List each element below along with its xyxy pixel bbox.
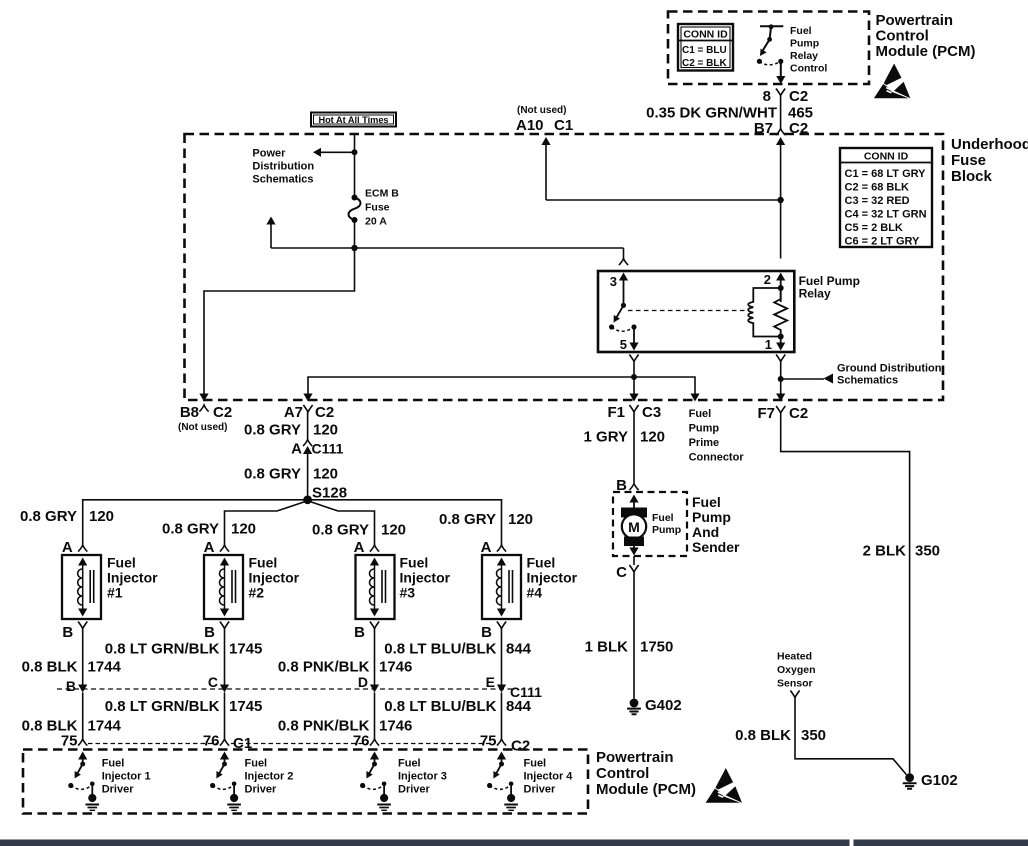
svg-text:0.8 GRY: 0.8 GRY bbox=[244, 466, 301, 483]
main feed wire from Hot At All Times bbox=[354, 134, 356, 198]
ground G102 bbox=[903, 773, 917, 789]
svg-text:Driver: Driver bbox=[102, 784, 135, 796]
svg-text:Schematics: Schematics bbox=[252, 174, 313, 186]
svg-text:0.8 GRY: 0.8 GRY bbox=[312, 522, 369, 539]
relay switch bbox=[621, 303, 626, 308]
fuse ECM B 20 A bbox=[352, 195, 358, 201]
svg-text:0.8 BLK: 0.8 BLK bbox=[735, 727, 791, 744]
label Fuel Injector 3 Driver bbox=[398, 758, 447, 796]
svg-text:120: 120 bbox=[313, 466, 338, 483]
svg-text:0.8 PNK/BLK: 0.8 PNK/BLK bbox=[278, 659, 370, 676]
svg-text:465: 465 bbox=[788, 105, 813, 122]
svg-text:Prime: Prime bbox=[689, 437, 720, 449]
svg-text:76: 76 bbox=[353, 733, 370, 750]
svg-text:Schematics: Schematics bbox=[837, 375, 898, 387]
svg-text:G102: G102 bbox=[921, 772, 958, 789]
svg-text:E: E bbox=[486, 674, 495, 690]
fuel pump motor M bbox=[621, 508, 647, 518]
node B7 C2 bbox=[776, 129, 785, 136]
wire relay pin 1 to F7 bbox=[776, 355, 785, 362]
svg-text:8: 8 bbox=[763, 88, 771, 105]
fuel injector 4 bbox=[482, 555, 521, 619]
svg-text:0.8 GRY: 0.8 GRY bbox=[439, 511, 496, 528]
svg-text:A: A bbox=[204, 539, 215, 556]
svg-text:Control: Control bbox=[790, 63, 827, 75]
svg-text:Driver: Driver bbox=[245, 784, 278, 796]
svg-text:Module (PCM): Module (PCM) bbox=[596, 781, 696, 798]
svg-text:Fuel: Fuel bbox=[692, 494, 721, 510]
svg-text:#3: #3 bbox=[400, 585, 416, 601]
svg-text:Injector 4: Injector 4 bbox=[524, 771, 574, 783]
svg-text:C: C bbox=[208, 674, 218, 690]
svg-text:Fuel: Fuel bbox=[790, 25, 812, 37]
label Fuel Injector #3 bbox=[400, 555, 451, 601]
svg-text:Injector: Injector bbox=[249, 570, 300, 586]
svg-text:B: B bbox=[204, 624, 215, 641]
svg-text:0.35 DK GRN/WHT: 0.35 DK GRN/WHT bbox=[646, 105, 777, 122]
svg-text:Driver: Driver bbox=[398, 784, 431, 796]
svg-text:Heated: Heated bbox=[777, 651, 812, 663]
svg-text:75: 75 bbox=[480, 733, 497, 750]
svg-text:Fuel: Fuel bbox=[102, 758, 125, 770]
svg-text:Fuel: Fuel bbox=[652, 512, 674, 524]
fuel injector 1 bbox=[62, 555, 101, 619]
svg-text:C2: C2 bbox=[789, 405, 808, 422]
svg-text:1744: 1744 bbox=[88, 718, 122, 735]
wire B7 into fuse block down to relay pin 2 bbox=[776, 137, 785, 145]
junction node on B7 wire bbox=[777, 197, 783, 203]
svg-text:C6 = 2 LT GRY: C6 = 2 LT GRY bbox=[845, 236, 921, 248]
svg-text:C3 = 32 RED: C3 = 32 RED bbox=[845, 195, 910, 207]
footer bar left bbox=[0, 840, 850, 846]
svg-text:CONN ID: CONN ID bbox=[864, 151, 909, 163]
svg-text:Pump: Pump bbox=[689, 423, 720, 435]
svg-text:B: B bbox=[66, 678, 76, 694]
relay pin 1 bbox=[780, 337, 782, 344]
fuel pump relay control driver (PCM output switch) bbox=[759, 26, 783, 77]
svg-text:F1: F1 bbox=[607, 404, 625, 421]
svg-text:75: 75 bbox=[61, 733, 78, 750]
svg-text:120: 120 bbox=[381, 522, 406, 539]
svg-text:ECM B: ECM B bbox=[365, 188, 399, 200]
wire C111 to PCM pin (injector 4) bbox=[501, 693, 503, 740]
wire C111 to PCM pin (injector 3) bbox=[374, 693, 376, 740]
svg-text:A: A bbox=[291, 441, 302, 458]
svg-text:#2: #2 bbox=[249, 585, 265, 601]
wire injector 1 to C111 bbox=[82, 629, 84, 686]
svg-text:0.8 GRY: 0.8 GRY bbox=[244, 422, 301, 439]
svg-text:Block: Block bbox=[951, 168, 993, 185]
svg-text:B: B bbox=[481, 624, 492, 641]
label Heated Oxygen Sensor bbox=[777, 651, 816, 690]
svg-text:120: 120 bbox=[508, 511, 533, 528]
svg-text:1746: 1746 bbox=[379, 718, 412, 735]
wire A10 stub bbox=[541, 137, 550, 145]
svg-text:76: 76 bbox=[203, 733, 220, 750]
svg-text:1750: 1750 bbox=[640, 639, 673, 656]
svg-text:A: A bbox=[354, 539, 365, 556]
relay resistor bbox=[774, 288, 787, 337]
svg-text:Fuel: Fuel bbox=[249, 555, 278, 571]
wire C111 to PCM pin (injector 1) bbox=[82, 693, 84, 740]
label Fuel Injector 2 Driver bbox=[245, 758, 294, 796]
svg-text:Hot At All Times: Hot At All Times bbox=[318, 115, 388, 125]
svg-text:B: B bbox=[354, 624, 365, 641]
svg-text:C1 = BLU: C1 = BLU bbox=[682, 45, 727, 56]
relay coil bbox=[748, 288, 781, 337]
svg-text:Underhood: Underhood bbox=[951, 136, 1028, 153]
svg-text:#4: #4 bbox=[527, 585, 543, 601]
svg-text:Powertrain: Powertrain bbox=[876, 12, 954, 29]
svg-text:And: And bbox=[692, 524, 719, 540]
svg-text:0.8 LT GRN/BLK: 0.8 LT GRN/BLK bbox=[105, 641, 220, 658]
label Powertrain Control Module (PCM) bottom bbox=[596, 749, 696, 798]
svg-text:Sender: Sender bbox=[692, 539, 740, 555]
fuel injector 3 bbox=[356, 555, 395, 619]
svg-text:0.8 BLK: 0.8 BLK bbox=[22, 659, 78, 676]
svg-text:Injector 2: Injector 2 bbox=[245, 771, 294, 783]
wire fuse output bbox=[354, 220, 356, 248]
svg-text:Module (PCM): Module (PCM) bbox=[876, 43, 976, 60]
svg-text:C1: C1 bbox=[233, 735, 252, 752]
svg-text:Injector: Injector bbox=[527, 570, 578, 586]
svg-text:120: 120 bbox=[231, 521, 256, 538]
svg-text:Fuel: Fuel bbox=[524, 758, 547, 770]
wire injector 4 to C111 bbox=[501, 629, 503, 686]
wire C111 to splice S128 (0.8 GRY 120) bbox=[307, 453, 309, 500]
svg-text:Injector: Injector bbox=[400, 570, 451, 586]
svg-text:2: 2 bbox=[764, 272, 771, 287]
svg-text:1744: 1744 bbox=[88, 659, 122, 676]
label Fuel Pump And Sender bbox=[692, 494, 740, 555]
svg-text:Fuel: Fuel bbox=[245, 758, 268, 770]
svg-text:Sensor: Sensor bbox=[777, 678, 813, 690]
svg-text:B: B bbox=[62, 624, 73, 641]
ESD warning triangle (bottom) bbox=[706, 768, 742, 803]
svg-text:0.8 LT BLU/BLK: 0.8 LT BLU/BLK bbox=[384, 641, 496, 658]
svg-text:Control: Control bbox=[876, 28, 929, 45]
footer bar right bbox=[854, 840, 1028, 846]
label Underhood Fuse Block bbox=[951, 136, 1028, 185]
wire branch to injector 3 bbox=[308, 501, 375, 545]
wire down into relay pin 3 bbox=[623, 248, 625, 259]
Hot At All Times tag bbox=[311, 113, 396, 127]
svg-text:0.8 GRY: 0.8 GRY bbox=[162, 521, 219, 538]
svg-text:C1 = 68 LT GRY: C1 = 68 LT GRY bbox=[845, 168, 927, 180]
wire A7 to connector C111 (0.8 GRY 120) bbox=[307, 412, 309, 440]
wire F1 to fuel pump (1 GRY 120) bbox=[633, 412, 635, 483]
svg-text:1745: 1745 bbox=[229, 698, 262, 715]
svg-text:3: 3 bbox=[610, 274, 617, 289]
node heated oxygen sensor bbox=[790, 691, 799, 698]
CONN ID table (PCM) bbox=[678, 24, 733, 71]
svg-text:0.8 LT GRN/BLK: 0.8 LT GRN/BLK bbox=[105, 698, 220, 715]
svg-text:#1: #1 bbox=[107, 585, 123, 601]
wire injector 2 to C111 bbox=[224, 629, 226, 686]
svg-text:120: 120 bbox=[313, 422, 338, 439]
svg-text:C4 = 32 LT GRN: C4 = 32 LT GRN bbox=[845, 209, 927, 221]
wire 1 BLK 1750 to G402 bbox=[633, 572, 635, 699]
wire to B8 (not used) bbox=[204, 248, 355, 399]
svg-text:0.8 LT BLU/BLK: 0.8 LT BLU/BLK bbox=[384, 698, 496, 715]
svg-text:B7: B7 bbox=[754, 120, 773, 137]
ground G402 bbox=[627, 699, 641, 715]
svg-text:Fuse: Fuse bbox=[951, 152, 986, 169]
connector C111 row dashed line bbox=[57, 688, 512, 690]
svg-text:M: M bbox=[628, 519, 640, 535]
svg-text:S128: S128 bbox=[312, 485, 347, 502]
svg-text:Oxygen: Oxygen bbox=[777, 664, 816, 676]
svg-text:Fuel: Fuel bbox=[527, 555, 556, 571]
svg-text:Relay: Relay bbox=[799, 287, 831, 301]
fuel injector 2 bbox=[204, 555, 243, 619]
svg-text:B: B bbox=[616, 477, 627, 494]
fuel pump and sender dashed box bbox=[613, 492, 687, 556]
svg-text:C2 = 68 BLK: C2 = 68 BLK bbox=[845, 182, 910, 194]
wire to ground distribution schematics bbox=[781, 378, 824, 380]
wire arrow to power distribution bbox=[321, 151, 355, 153]
label Fuel Pump Relay Control bbox=[790, 25, 827, 75]
svg-text:C2 = BLK: C2 = BLK bbox=[682, 58, 728, 69]
fuel pump relay box bbox=[598, 271, 794, 352]
svg-text:C2: C2 bbox=[511, 738, 530, 755]
svg-text:Driver: Driver bbox=[524, 784, 557, 796]
wire injector 3 to C111 bbox=[374, 629, 376, 686]
svg-text:Control: Control bbox=[596, 765, 649, 782]
svg-text:A: A bbox=[62, 539, 73, 556]
wire F7 to G102 (2 BLK 350) bbox=[781, 413, 910, 773]
fuel injector 4 driver bbox=[497, 752, 506, 760]
label Fuel Pump Prime Connector bbox=[689, 408, 745, 464]
svg-text:1 BLK: 1 BLK bbox=[585, 639, 629, 656]
svg-text:C5 = 2 BLK: C5 = 2 BLK bbox=[845, 222, 903, 234]
wire B7: PCM to fuse block bbox=[780, 96, 782, 129]
label Powertrain Control Module (PCM) top bbox=[876, 12, 976, 60]
svg-text:Fuse: Fuse bbox=[365, 202, 390, 214]
svg-text:Fuel: Fuel bbox=[689, 408, 712, 420]
svg-text:1745: 1745 bbox=[229, 641, 262, 658]
svg-text:Pump: Pump bbox=[790, 38, 819, 50]
label Fuel Injector #2 bbox=[249, 555, 300, 601]
svg-text:Fuel: Fuel bbox=[400, 555, 429, 571]
fuel injector 3 driver bbox=[370, 752, 379, 760]
svg-text:Distribution: Distribution bbox=[252, 161, 314, 173]
ESD warning triangle (top) bbox=[874, 64, 910, 99]
node 8 C2 bbox=[776, 89, 785, 96]
svg-text:CONN ID: CONN ID bbox=[683, 29, 728, 41]
svg-text:Ground Distribution: Ground Distribution bbox=[837, 363, 942, 375]
label ECM B Fuse 20 A bbox=[365, 188, 399, 228]
svg-text:Relay: Relay bbox=[790, 50, 818, 62]
PCM (bottom) dashed box bbox=[23, 750, 588, 814]
wire 0.8 BLK 350 to G102 bbox=[795, 698, 906, 775]
svg-text:844: 844 bbox=[506, 641, 532, 658]
svg-text:C2: C2 bbox=[789, 88, 808, 105]
svg-text:Fuel: Fuel bbox=[107, 555, 136, 571]
svg-text:(Not used): (Not used) bbox=[517, 105, 566, 116]
motor feed arrow bbox=[629, 495, 638, 503]
svg-text:B8: B8 bbox=[180, 404, 199, 421]
wire branch to injector 2 bbox=[225, 501, 308, 545]
svg-text:350: 350 bbox=[801, 727, 826, 744]
svg-text:C1: C1 bbox=[554, 117, 573, 134]
PCM (top) dashed box bbox=[668, 12, 869, 85]
svg-text:C: C bbox=[616, 564, 627, 581]
CONN ID table (underhood fuse block) bbox=[840, 148, 932, 248]
svg-text:Pump: Pump bbox=[692, 509, 731, 525]
fuel injector 2 driver bbox=[220, 752, 229, 760]
svg-text:350: 350 bbox=[915, 543, 940, 560]
splice bus wire to injectors 1 and 4 bbox=[83, 500, 502, 545]
svg-text:C111: C111 bbox=[312, 441, 344, 457]
wire to fuel pump prime connector bbox=[634, 377, 695, 399]
svg-text:0.8 GRY: 0.8 GRY bbox=[20, 508, 77, 525]
svg-text:1: 1 bbox=[765, 337, 772, 352]
svg-text:Fuel: Fuel bbox=[398, 758, 421, 770]
svg-text:Power: Power bbox=[252, 148, 286, 160]
svg-text:A10: A10 bbox=[516, 117, 544, 134]
wire splice to A7 bbox=[308, 377, 634, 399]
svg-text:20 A: 20 A bbox=[365, 216, 387, 228]
label Power Distribution Schematics bbox=[252, 148, 314, 186]
PCM pin row dashed line bbox=[88, 743, 218, 745]
svg-text:C2: C2 bbox=[789, 120, 808, 137]
svg-text:844: 844 bbox=[506, 698, 532, 715]
svg-text:D: D bbox=[358, 674, 368, 690]
relay pin 3 bbox=[619, 273, 628, 281]
svg-text:Powertrain: Powertrain bbox=[596, 749, 674, 766]
fuel injector 1 driver bbox=[78, 752, 87, 760]
svg-text:1 GRY: 1 GRY bbox=[584, 429, 628, 446]
connector C111 node A bbox=[303, 440, 312, 447]
svg-text:Injector 1: Injector 1 bbox=[102, 771, 151, 783]
svg-text:Injector: Injector bbox=[107, 570, 158, 586]
svg-text:120: 120 bbox=[640, 429, 665, 446]
underhood fuse block dashed box bbox=[185, 134, 944, 400]
svg-text:C2: C2 bbox=[213, 404, 232, 421]
wire C111 to PCM pin (injector 2) bbox=[224, 693, 226, 740]
relay internal dashed link bbox=[628, 310, 747, 312]
up arrow branch (power distribution) bbox=[270, 224, 272, 248]
label Fuel Injector #1 bbox=[107, 555, 158, 601]
svg-text:Connector: Connector bbox=[689, 452, 745, 464]
svg-text:A7: A7 bbox=[284, 404, 303, 421]
wire relay pin 5 to F1 bbox=[629, 355, 638, 362]
label Fuel Injector 4 Driver bbox=[524, 758, 574, 796]
svg-text:2 BLK: 2 BLK bbox=[863, 543, 907, 560]
svg-text:Injector 3: Injector 3 bbox=[398, 771, 447, 783]
svg-text:5: 5 bbox=[620, 337, 627, 352]
svg-text:Pump: Pump bbox=[652, 524, 681, 536]
svg-text:A: A bbox=[481, 539, 492, 556]
main horizontal bus to relay pin 3 bbox=[271, 247, 624, 249]
svg-text:1746: 1746 bbox=[379, 659, 412, 676]
relay pin 5 bbox=[633, 327, 635, 343]
svg-text:(Not used): (Not used) bbox=[178, 422, 227, 433]
relay pin 2 bbox=[776, 273, 785, 281]
label Fuel Injector #4 bbox=[527, 555, 578, 601]
svg-text:C3: C3 bbox=[642, 404, 661, 421]
svg-text:C2: C2 bbox=[315, 404, 334, 421]
label Fuel Injector 1 Driver bbox=[102, 758, 151, 796]
svg-text:F7: F7 bbox=[757, 405, 775, 422]
svg-text:120: 120 bbox=[89, 508, 114, 525]
svg-text:G402: G402 bbox=[645, 697, 682, 714]
